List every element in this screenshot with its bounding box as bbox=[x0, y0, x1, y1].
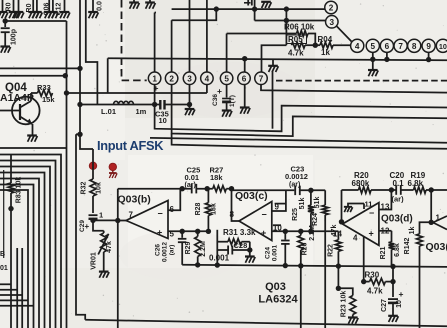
wire feedback top bbox=[118, 186, 192, 191]
node 3 (top) bbox=[326, 16, 339, 29]
svg-text:3: 3 bbox=[330, 18, 335, 27]
wire y58.7 long bbox=[108, 58, 447, 60]
wire feed to node 5 bbox=[226, 34, 228, 73]
svg-text:1(T): 1(T) bbox=[229, 95, 236, 107]
svg-text:R32: R32 bbox=[81, 181, 88, 194]
svg-text:18k: 18k bbox=[210, 173, 223, 182]
wire R20 left down bbox=[339, 190, 344, 225]
resistor R83 10k bbox=[0, 155, 23, 328]
svg-text:C28: C28 bbox=[234, 241, 248, 250]
wire bundle e8 bbox=[0, 190, 28, 328]
svg-text:51k: 51k bbox=[314, 197, 321, 209]
wire pin10 bbox=[272, 225, 339, 234]
svg-text:1k: 1k bbox=[409, 227, 416, 235]
wire x286.4 vertical bbox=[285, 9, 287, 45]
wire stub node1 down bbox=[154, 84, 156, 104]
op-amp Q03(b) bbox=[118, 194, 175, 239]
svg-text:7: 7 bbox=[259, 74, 264, 83]
svg-text:LA6324: LA6324 bbox=[258, 294, 298, 306]
wire node6 stub bbox=[386, 53, 388, 60]
svg-text:VR01: VR01 bbox=[91, 252, 98, 270]
svg-text:R0: R0 bbox=[6, 2, 13, 11]
svg-text:R83 10k: R83 10k bbox=[16, 177, 23, 204]
resistor R25 51k bbox=[292, 188, 314, 234]
dashed boundary vertical bbox=[122, 0, 147, 80]
ground top-9 bbox=[88, 0, 98, 18]
svg-text:8: 8 bbox=[412, 42, 417, 51]
svg-text:R22: R22 bbox=[327, 244, 334, 257]
resistor R19 6.8k bbox=[408, 171, 447, 193]
resistor VR01 47k bbox=[91, 220, 114, 277]
svg-text:Q03: Q03 bbox=[265, 281, 286, 293]
resistor R04 1k bbox=[318, 35, 351, 57]
svg-text:0.0: 0.0 bbox=[97, 1, 104, 11]
svg-text:6: 6 bbox=[242, 74, 247, 83]
svg-text:C36: C36 bbox=[212, 94, 219, 106]
wire box-left to bottom bbox=[216, 250, 218, 265]
inductor L01 1m bbox=[80, 101, 160, 116]
wire stub node4 down bbox=[206, 84, 208, 93]
svg-text:R24: R24 bbox=[312, 213, 319, 226]
red ground marker bbox=[109, 171, 117, 178]
capacitor C35 10 bbox=[152, 100, 190, 125]
node 3 bbox=[183, 72, 196, 85]
resistor R24 51k bbox=[312, 190, 328, 328]
wire Q03b output bbox=[115, 218, 126, 223]
box partial left bbox=[3, 170, 5, 258]
wire feed to node 1 bbox=[154, 13, 156, 73]
resistor R05 4.7k bbox=[287, 35, 321, 58]
capacitor 100p bbox=[0, 18, 17, 52]
svg-text:10k: 10k bbox=[96, 182, 103, 194]
svg-text:6.8k: 6.8k bbox=[394, 243, 401, 257]
wire y68.4 from left bbox=[0, 67, 80, 69]
svg-text:C27: C27 bbox=[381, 299, 388, 312]
wire vertical x85.8 top bbox=[86, 0, 98, 105]
svg-text:5: 5 bbox=[371, 42, 376, 51]
wire bundle e3 bbox=[0, 161, 56, 328]
svg-text:R28: R28 bbox=[195, 202, 202, 215]
wire R19 down bbox=[429, 190, 434, 225]
wire y134.3 link bbox=[76, 133, 80, 135]
svg-text:6.8k: 6.8k bbox=[408, 179, 424, 188]
capacitor C24 0.001 bbox=[265, 231, 290, 265]
ground top-2 bbox=[9, 0, 19, 18]
junction 386.9 bbox=[384, 57, 389, 62]
svg-text:R33: R33 bbox=[37, 83, 51, 92]
ground top-5 bbox=[32, 0, 42, 18]
junction bottom 338.4 bbox=[336, 263, 341, 268]
capacitor C25 0.01 bbox=[185, 166, 213, 194]
svg-text:0.01: 0.01 bbox=[185, 173, 200, 182]
svg-text:R05: R05 bbox=[288, 35, 303, 44]
junction 372.8 bbox=[370, 57, 375, 62]
wire y9.1 to node2top bbox=[172, 8, 325, 10]
svg-text:2: 2 bbox=[169, 74, 174, 83]
wire vertical x66.5 (R33 node to bundle) bbox=[66, 21, 68, 328]
svg-text:2.2M: 2.2M bbox=[200, 241, 207, 257]
node 4 (row2) bbox=[351, 39, 364, 52]
ground node3 column bbox=[185, 102, 195, 115]
wire stub node3 down bbox=[189, 84, 191, 104]
ground top-1 bbox=[0, 0, 8, 18]
svg-text:(ar): (ar) bbox=[169, 245, 176, 255]
node 10 (row2) bbox=[436, 39, 447, 52]
ground top-3 bbox=[14, 0, 24, 18]
transistor Q04 bbox=[0, 82, 40, 142]
svg-text:−: − bbox=[369, 208, 374, 218]
resistor R32 10k bbox=[81, 149, 103, 213]
resistor R06 10k bbox=[227, 23, 316, 46]
wire y75.7 from left bbox=[0, 73, 68, 78]
svg-text:R04: R04 bbox=[318, 35, 333, 44]
wire bus lineF bbox=[172, 134, 447, 149]
junction bottom 197.7 bbox=[195, 262, 200, 267]
wire vertical x80 input feed bbox=[77, 0, 93, 149]
svg-text:0.0012: 0.0012 bbox=[285, 172, 308, 181]
svg-text:L.01: L.01 bbox=[101, 107, 116, 116]
ground top-4 bbox=[28, 0, 38, 18]
capacitor C26 0.0012 bbox=[155, 231, 187, 264]
svg-text:1k: 1k bbox=[321, 48, 330, 57]
capacitor C20 0.1 bbox=[390, 171, 414, 204]
svg-text:−: − bbox=[158, 209, 163, 219]
wire bottom long bbox=[182, 265, 447, 267]
node 8 (row2) bbox=[408, 39, 421, 52]
svg-text:Input AFSK: Input AFSK bbox=[97, 138, 164, 153]
node 6 bbox=[238, 72, 251, 85]
wire output column x117.8 bbox=[117, 189, 119, 328]
svg-text:R21: R21 bbox=[380, 246, 387, 259]
node 7 bbox=[255, 72, 268, 85]
svg-text:R23 10k: R23 10k bbox=[341, 291, 348, 318]
svg-text:10: 10 bbox=[439, 42, 447, 51]
svg-text:R06 10k: R06 10k bbox=[284, 23, 315, 32]
svg-text:9: 9 bbox=[426, 42, 431, 51]
svg-text:3: 3 bbox=[187, 74, 192, 83]
svg-text:6: 6 bbox=[385, 42, 390, 51]
svg-text:10: 10 bbox=[159, 116, 167, 125]
capacitor C27 10 bbox=[381, 267, 404, 323]
resistor R22 47k bbox=[327, 225, 341, 289]
wire feed to node 3 bbox=[189, 0, 191, 72]
svg-text:0.001: 0.001 bbox=[272, 244, 279, 261]
resistor R23 10k bbox=[336, 286, 359, 324]
junction bottom 285.3 bbox=[283, 263, 288, 268]
dashed boundary horizontal bbox=[276, 80, 447, 82]
node 6 (row2) bbox=[380, 39, 393, 52]
svg-text:C06: C06 bbox=[44, 2, 51, 15]
svg-text:0.0012: 0.0012 bbox=[162, 242, 169, 262]
junction bottom 217.3 bbox=[215, 262, 220, 267]
wire bundle e2 bbox=[0, 155, 61, 328]
wire node9 stub bbox=[428, 53, 430, 60]
resistor R21 6.8k bbox=[379, 231, 401, 267]
wire bundle e1 bbox=[0, 147, 67, 149]
ground x273 bbox=[268, 59, 278, 72]
svg-text:680k: 680k bbox=[352, 179, 370, 188]
wire bundle e6 bbox=[0, 179, 39, 328]
svg-text:(ar): (ar) bbox=[185, 182, 196, 189]
wire pin9 bbox=[272, 190, 286, 211]
capacitor C28 0.001 bbox=[209, 241, 255, 263]
svg-text:14: 14 bbox=[333, 230, 342, 239]
resistor R29 2.2M bbox=[185, 231, 207, 265]
resistor R26 2.2M bbox=[298, 225, 316, 328]
wire pin6 bbox=[168, 189, 180, 211]
wire bundle e7 bbox=[0, 185, 34, 328]
svg-text:R31 3.3k: R31 3.3k bbox=[223, 228, 256, 237]
wire node5 stub + ground bbox=[368, 53, 378, 77]
wire y20.5 to node3top bbox=[255, 20, 326, 22]
svg-text:10: 10 bbox=[396, 300, 403, 308]
svg-text:C26: C26 bbox=[155, 244, 162, 256]
wire bundle e11 bbox=[21, 248, 23, 328]
node 1 (right edge) bbox=[433, 214, 447, 230]
junction 244.7 bbox=[242, 56, 247, 61]
capacitor C23 0.0012 bbox=[285, 165, 325, 196]
junction 286a bbox=[284, 6, 289, 11]
ground top-10 bbox=[145, 0, 155, 9]
svg-text:+: + bbox=[369, 229, 374, 239]
ground top edge right bbox=[261, 2, 271, 8]
node 1 bbox=[148, 72, 161, 85]
ground top-7 bbox=[48, 0, 58, 18]
wire diagonal node3-node4 bbox=[337, 26, 352, 41]
junction bottom 393 bbox=[390, 264, 395, 269]
wire bus ground-drop bbox=[272, 72, 274, 129]
capacitor C36 1(T) bbox=[212, 84, 236, 116]
wire bundle e10 bbox=[16, 248, 18, 328]
svg-text:15k: 15k bbox=[42, 95, 55, 104]
svg-text:18k: 18k bbox=[211, 203, 218, 215]
svg-text:0.001: 0.001 bbox=[209, 254, 230, 263]
capacitor C29 1 bbox=[79, 211, 103, 232]
resistor R27 18k bbox=[205, 166, 235, 192]
svg-text:B: B bbox=[0, 251, 5, 258]
wire pin13 bbox=[379, 190, 392, 210]
resistor R31 3.3k bbox=[217, 228, 256, 250]
svg-text:(ar): (ar) bbox=[392, 195, 405, 204]
svg-text:1: 1 bbox=[436, 214, 441, 223]
op-amp Q03(d) bbox=[333, 203, 413, 246]
svg-text:4.7k: 4.7k bbox=[288, 49, 304, 58]
wire bus lineC bbox=[172, 84, 447, 136]
resistor R28 18k bbox=[195, 189, 218, 234]
wire vertical x76 bottom bbox=[76, 134, 85, 319]
svg-text:4.7k: 4.7k bbox=[367, 287, 383, 296]
wire feed node7 from R05 bbox=[262, 45, 287, 72]
svg-text:4: 4 bbox=[205, 74, 210, 83]
wire feed to node 4 bbox=[206, 0, 208, 72]
svg-text:Q03(: Q03( bbox=[426, 241, 447, 253]
svg-text:47k: 47k bbox=[106, 241, 113, 253]
wire bundle e4 bbox=[0, 167, 50, 328]
node 2 bbox=[165, 72, 178, 85]
ground top-9 bbox=[129, 0, 139, 9]
svg-text:7: 7 bbox=[398, 42, 403, 51]
wire pin5 bbox=[168, 229, 208, 234]
svg-text:R30: R30 bbox=[365, 271, 380, 280]
svg-text:5: 5 bbox=[224, 74, 229, 83]
wire bus lineG bbox=[150, 138, 447, 143]
svg-text:2.2M: 2.2M bbox=[309, 225, 316, 241]
wire C23 top bbox=[232, 189, 295, 191]
svg-text:−: − bbox=[262, 210, 267, 220]
ground node6 column bbox=[240, 84, 250, 113]
wire stub x156 bbox=[155, 12, 156, 14]
svg-text:51k: 51k bbox=[299, 198, 306, 210]
resistor R142 1k bbox=[404, 222, 431, 328]
svg-text:Q03(c): Q03(c) bbox=[235, 190, 268, 202]
svg-text:+: + bbox=[399, 289, 404, 299]
svg-text:Q03(d): Q03(d) bbox=[381, 214, 413, 225]
wire bottom edge long bbox=[85, 320, 447, 327]
node 5 (row2) bbox=[366, 39, 379, 52]
svg-text:C29: C29 bbox=[79, 220, 86, 232]
node 2 (top) bbox=[325, 1, 338, 14]
wire bus lineB bbox=[155, 105, 447, 132]
wire bundle e5 bbox=[0, 173, 45, 328]
svg-text:1: 1 bbox=[99, 211, 103, 220]
svg-text:Q03(b): Q03(b) bbox=[118, 194, 151, 206]
svg-text:R142: R142 bbox=[404, 238, 411, 255]
svg-text:0.1: 0.1 bbox=[393, 179, 405, 188]
ground top-6 bbox=[44, 0, 54, 18]
node 4 bbox=[201, 72, 214, 85]
svg-text:C24: C24 bbox=[265, 247, 272, 259]
wire feed to node 2 bbox=[171, 20, 173, 72]
ground top-8 bbox=[60, 0, 70, 18]
node 7 (row2) bbox=[394, 39, 407, 52]
svg-text:+: + bbox=[154, 83, 159, 93]
resistor R33 15k bbox=[31, 83, 69, 104]
svg-text:01: 01 bbox=[0, 265, 8, 272]
svg-text:1: 1 bbox=[152, 74, 157, 83]
svg-text:C12: C12 bbox=[56, 2, 63, 15]
svg-text:R29: R29 bbox=[185, 241, 192, 254]
node 5 bbox=[220, 72, 233, 85]
capacitor top edge (clipped) bbox=[244, 0, 257, 21]
wire W1 long y93 bbox=[67, 83, 207, 93]
resistor R20 680k bbox=[342, 171, 395, 193]
svg-text:11: 11 bbox=[365, 200, 373, 209]
red marker 1 bbox=[89, 162, 96, 169]
red marker 2 bbox=[109, 163, 116, 170]
junction bottom 300.8 bbox=[298, 263, 303, 268]
node 9 (row2) bbox=[422, 39, 435, 52]
wire bus lineA bbox=[261, 84, 447, 92]
resistor R30 4.7k bbox=[361, 237, 396, 296]
wire feed to node 6 bbox=[244, 59, 246, 73]
wire y20.2 elbow bbox=[172, 6, 219, 20]
svg-text:1m: 1m bbox=[136, 107, 147, 116]
wire C29 node to opamp bbox=[93, 219, 118, 221]
svg-text:4: 4 bbox=[353, 234, 358, 243]
svg-text:+: + bbox=[261, 228, 266, 238]
svg-text:7: 7 bbox=[129, 211, 134, 220]
svg-text:R0: R0 bbox=[26, 3, 33, 12]
wire Q03c output bbox=[232, 189, 240, 221]
svg-text:100p: 100p bbox=[11, 29, 18, 45]
svg-text:(ar): (ar) bbox=[289, 182, 300, 189]
op-amp Q03(c) bbox=[230, 190, 283, 241]
svg-text:2: 2 bbox=[329, 4, 334, 13]
junction 286b bbox=[284, 18, 289, 23]
junction 428.6 bbox=[426, 57, 431, 62]
svg-text:R26: R26 bbox=[302, 242, 309, 255]
svg-text:+: + bbox=[157, 228, 162, 238]
ground pin11 bbox=[344, 200, 373, 213]
wire top-left horiz bbox=[5, 20, 66, 22]
svg-text:4: 4 bbox=[355, 42, 360, 51]
